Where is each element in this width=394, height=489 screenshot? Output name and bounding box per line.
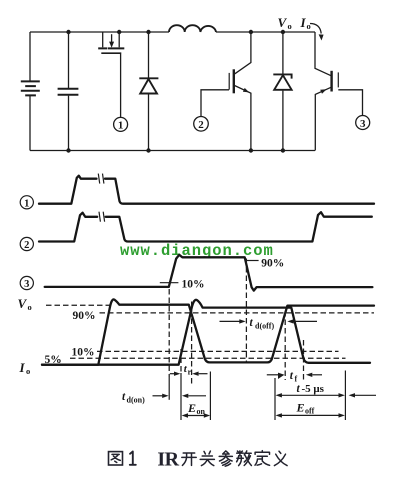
svg-text:I: I [19,360,26,375]
svg-text:I: I [300,15,307,30]
CAPTION 图 1 IR 开关参数定义 [109,448,288,470]
waveform 2 trace [39,212,372,241]
label td(off) [250,317,275,331]
caption char ding [255,451,270,466]
caption char shu [237,451,252,466]
svg-text:t: t [290,370,294,382]
svg-text:d(off): d(off) [255,322,274,331]
battery B1 [21,32,40,151]
node dot D2 bottom [281,148,285,152]
diode D1 [139,32,158,151]
svg-text:o: o [288,21,292,31]
svg-text:-5 μs: -5 μs [302,383,325,395]
node dot Q2 emitter [249,148,253,152]
waveform 1 break marks [98,174,104,184]
label Vo top [278,15,292,31]
svg-text:t: t [122,391,126,403]
svg-text:3: 3 [360,118,366,130]
wire bottom rail [30,150,315,152]
label Vo axis [18,296,32,312]
Io current trace [42,300,370,365]
arrow td(off) left [220,319,246,323]
inductor L1 [169,25,216,32]
label td(on) [122,391,145,405]
arrow td(off) right [287,319,317,323]
svg-text:2: 2 [24,240,29,251]
svg-text:E: E [296,400,305,414]
dashed vertical 10pct-current [180,349,182,373]
node 2 circle [194,117,209,132]
svg-text:t: t [250,317,254,329]
node dot Q2 collector [249,30,253,34]
caption char kai [182,453,196,465]
waveform 1 trace [39,176,374,204]
solid vertical gate-on lower [168,377,170,400]
svg-text:E: E [187,401,196,415]
label tr [184,363,192,377]
Vo voltage trace [42,299,374,364]
arrow t5us span [276,393,345,397]
svg-text:10%: 10% [72,347,95,359]
label t-5us [297,383,325,395]
solid vertical Eon-end [209,372,211,421]
arrow td(on) right [182,394,206,398]
node dot cap bottom [66,148,70,152]
dashed vertical tf-end [303,340,305,380]
node 1 circle [114,117,128,131]
caption char 1 [130,452,136,465]
label Io axis [19,360,31,376]
wire top rail right [216,31,315,33]
solid vertical 10pct-current lower [180,373,182,420]
caption IR [157,448,179,470]
capacitor C1 [58,32,79,151]
svg-text:V: V [18,296,28,311]
arrow td(on) left [153,394,169,398]
svg-text:IR: IR [157,448,179,470]
caption char tu [109,452,123,465]
node 3 waveform circle [20,276,33,290]
wire top rail left [30,31,169,33]
waveform 3 trace [45,255,373,291]
node 1 waveform circle [20,196,33,210]
svg-text:1: 1 [24,198,29,209]
caption char yi [274,451,287,465]
svg-text:off: off [305,407,315,416]
solid vertical Eoff-end [344,371,346,421]
arrow Eoff span [276,413,345,417]
node dot cap top [66,30,70,34]
label Eoff [296,400,315,415]
svg-text:o: o [26,366,30,376]
svg-text:3: 3 [24,279,29,290]
arrow tr right [192,372,207,376]
dashed vertical gate-off [245,259,247,362]
node dot D1 bottom [146,148,150,152]
svg-text:o: o [307,21,311,31]
node dot D2 top [281,30,285,34]
svg-text:o: o [28,302,32,312]
svg-text:1: 1 [118,120,124,132]
dashed vertical gate-on [168,289,170,377]
arrow Eon span [182,413,211,417]
diode D2 [273,32,291,151]
label tf [290,370,298,384]
arrow tf right [306,373,322,377]
svg-text:90%: 90% [261,257,284,269]
dashed vertical tr-end [191,302,193,387]
svg-text:r: r [188,367,192,376]
node dot D1 top [146,30,150,34]
transistor Q2 IGBT [201,32,251,151]
arrow t5us external right [349,393,376,397]
node dot mosfet drain [117,30,121,34]
node 3 circle [356,116,370,130]
svg-text:2: 2 [198,119,204,131]
dashed 90% level [100,312,375,314]
Io curved arrow [310,24,324,41]
label Eon [187,401,206,416]
arrow tf left [267,373,285,379]
svg-text:t: t [297,383,301,395]
svg-text:90%: 90% [73,310,96,322]
dashed vertical tf-start [284,311,286,380]
waveform 3 10% tick [160,282,179,284]
svg-text:d(on): d(on) [127,396,146,405]
dashed 10% level [97,350,339,352]
transistor Q3 IGBT [315,32,363,151]
dashed 100% level [46,304,111,306]
svg-text:V: V [278,15,288,30]
svg-text:10%: 10% [182,279,205,291]
arrow tr left [170,372,181,376]
label Io top [300,15,311,31]
waveform 2 break marks [99,212,105,222]
node 2 waveform circle [20,237,33,251]
solid vertical Eoff-start [274,378,276,420]
dashed 5% level [70,357,346,359]
waveform 3 90% tick [245,260,259,262]
caption char guan [200,451,214,466]
transistor Q1 MOSFET [98,32,124,117]
caption char can [219,451,232,466]
